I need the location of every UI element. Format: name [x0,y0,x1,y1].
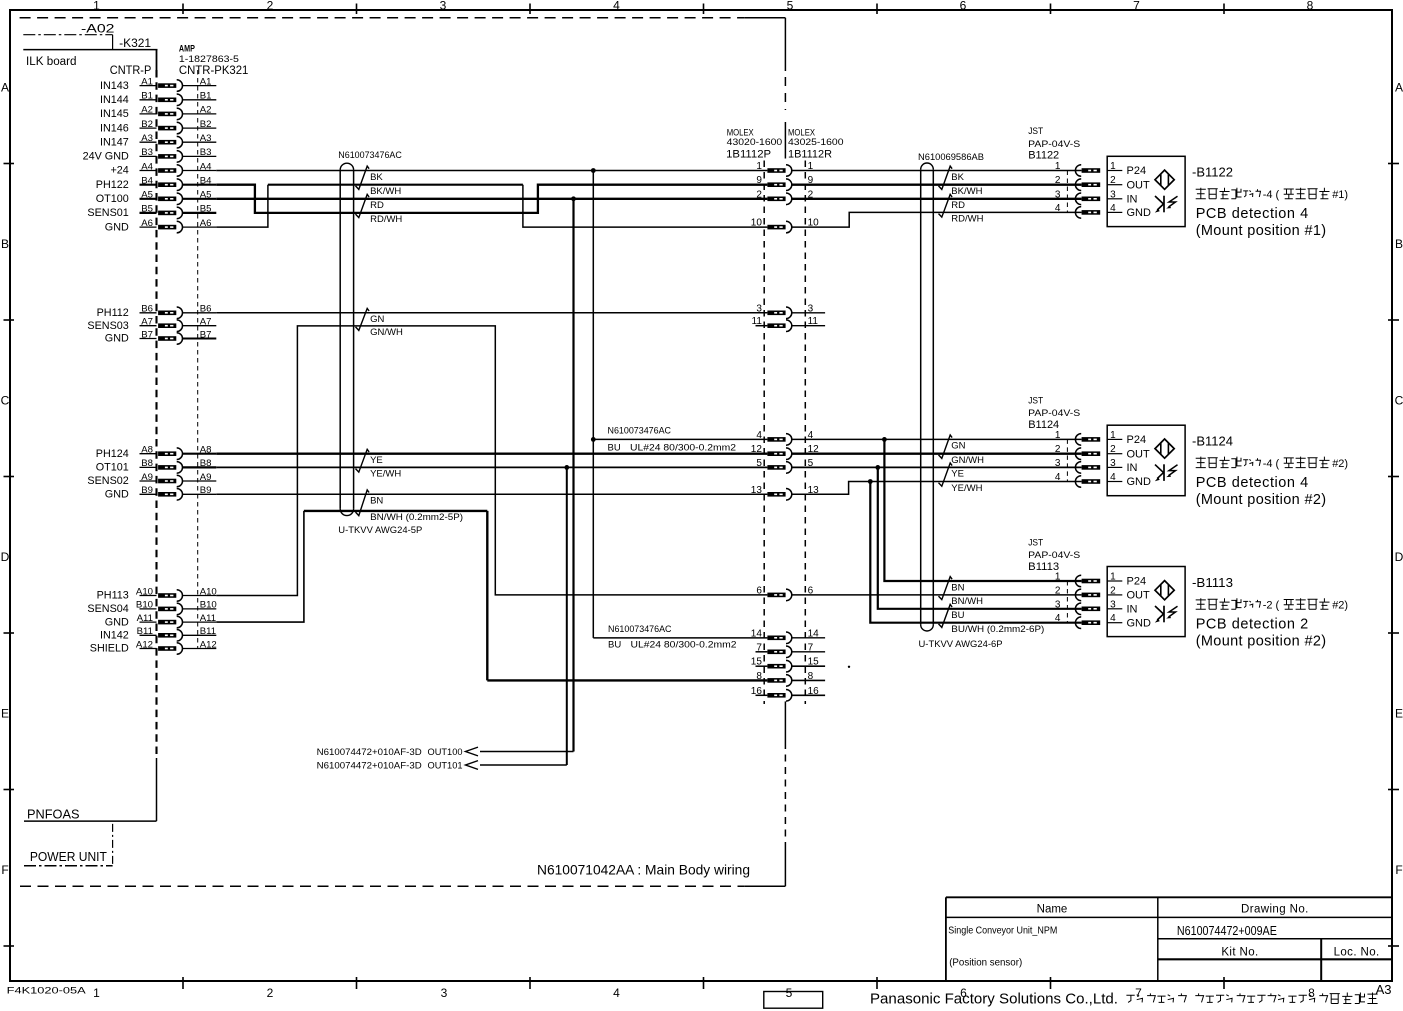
svg-text:2: 2 [1055,585,1061,596]
stray dot [848,666,850,668]
svg-text:1B1112R: 1B1112R [788,149,832,161]
junction dot GN branch to B1113 [882,437,887,442]
label N610073476AC at pin 14 wire [608,624,737,651]
pin label A1 right [183,76,217,87]
connector JST PAP-04V-S B1122 label [1028,126,1080,161]
connector CNTR-P/PK321 contact A10 [158,590,182,602]
sensor B1124 emitter diamond icon [1155,439,1174,458]
wire OT101 vertical branch to OUT101 arrow [480,467,567,765]
pin number 11 left [752,316,768,327]
svg-text:2: 2 [267,0,274,13]
wire BK to sensor B1122 P24 [791,170,1081,172]
board -A02 boundary dash-dot line [23,35,112,50]
connector CNTR-P/PK321 contact A1 [158,80,182,92]
svg-text:OUT101: OUT101 [428,760,463,770]
wire PH112 net B6 to MOLEX pin 3 [216,312,767,314]
connector CNTR-P/PK321 contact B2 [158,122,182,134]
svg-text:Loc. No.: Loc. No. [1334,947,1380,959]
svg-text:U-TKVV AWG24-5P: U-TKVV AWG24-5P [338,525,422,536]
pin number 5 right [808,458,814,469]
pin number 10 left [751,218,763,229]
pin number 1 inside B1124 and wire [1107,430,1122,441]
svg-text:U-TKVV AWG24-6P: U-TKVV AWG24-6P [919,639,1003,650]
pin label B10 right [183,600,217,611]
pin label A4 left [140,161,157,172]
svg-text:JST: JST [1028,538,1043,548]
cable 2 pair marker RD/RD/WH [939,194,953,217]
cable 2 pair marker BK/BK/WH [939,166,953,189]
svg-text:E: E [1,707,9,721]
machine boundary dashed line bottom [20,885,785,887]
connector B1122 socket contact pin 1 [1075,165,1100,177]
pin label A11 right [183,613,217,624]
connector CNTR-P/PK321 contact B3 [158,151,182,163]
svg-text:1: 1 [756,161,762,172]
pin number 6 left [756,585,762,596]
pin label A6 left [140,218,157,229]
junction dot +24 branch at pin 4 row [591,437,596,442]
pin label A1 left [140,76,157,87]
pin number 2 right [808,189,814,200]
svg-text:Panasonic Factory Solutions Co: Panasonic Factory Solutions Co.,Ltd. [870,992,1118,1008]
svg-text:PH124: PH124 [96,448,129,460]
svg-text:(Mount position #2): (Mount position #2) [1196,492,1327,508]
pin label A2 right [183,105,217,116]
connector B1124 socket contact pin 4 [1075,476,1100,488]
connector B1124 boundary dashed line [1066,439,1068,481]
svg-text:IN: IN [1127,462,1138,474]
svg-text:POWER UNIT: POWER UNIT [30,850,107,864]
connector B1122 boundary dashed line [1066,171,1068,213]
svg-text:RD: RD [370,200,384,211]
connector CNTR-P/PK321 contact A7 [158,320,182,332]
pin number 7 right [791,642,825,653]
connector 1B1112 contact pin 15 [767,660,791,672]
svg-text:1: 1 [93,986,100,1000]
label sensor B1124 japanese description [1196,457,1348,470]
svg-text:Name: Name [1037,904,1068,916]
pin number 12 right [808,444,820,455]
sensor B1113 emitter diamond icon [1155,581,1174,600]
sensor B1113 box [1107,567,1185,637]
svg-text:OUT: OUT [1127,448,1151,460]
svg-text:5: 5 [786,986,793,1000]
connector CNTR-P/PK321 contact A2 [158,108,182,120]
pin label A9 right [183,472,217,483]
pin label B9 right [183,485,217,496]
svg-text:BK/WH: BK/WH [951,186,982,197]
svg-text:C: C [1395,394,1403,408]
svg-text:14: 14 [751,628,763,639]
svg-text:5: 5 [787,0,794,13]
svg-text:24V GND: 24V GND [83,151,129,163]
pin number 5 left [756,458,762,469]
connector 1B1112 contact pin 6 [767,589,791,601]
svg-text:IN142: IN142 [100,630,129,642]
svg-text:SENS03: SENS03 [87,320,128,332]
connector B1122 socket contact pin 3 [1075,193,1100,205]
svg-text:+24: +24 [110,165,128,177]
svg-text:-2 (: -2 ( [1263,599,1280,611]
svg-text:#1): #1) [1332,189,1348,201]
svg-text:IN143: IN143 [100,80,129,92]
svg-text:BN: BN [370,496,383,507]
svg-text:PH122: PH122 [96,179,129,191]
pin label A5 left [140,190,157,201]
connector 1B1112 contact pin 9 [767,179,791,191]
svg-text:1: 1 [1055,161,1061,172]
pin number 16 right [791,686,825,697]
pin label B10 left [136,600,157,611]
sensor B1122 emitter diamond icon [1155,170,1174,189]
svg-text:1B1112P: 1B1112P [726,149,771,161]
label N610074472+010AF-3D OUT101 [317,760,463,770]
svg-text:IN147: IN147 [100,136,129,148]
arrow OUT100 [466,747,479,756]
svg-text:7: 7 [1135,986,1142,1000]
pin number 1 inside B1122 and wire [1107,161,1122,172]
svg-text:BU: BU [608,443,621,454]
company name japanese [1126,993,1377,1004]
svg-text:P24: P24 [1127,165,1147,177]
svg-text:2: 2 [267,986,274,1000]
pin label B7 right [183,329,217,340]
svg-text:BK: BK [370,172,383,183]
svg-text:D: D [1,550,10,564]
svg-text:-A02: -A02 [81,24,115,36]
svg-text:43025-1600: 43025-1600 [788,137,844,147]
svg-text:N610074472+009AE: N610074472+009AE [1177,924,1277,938]
pin number 3 inside B1124 and wire [1107,458,1122,469]
pin number 2 inside B1124 and wire [1107,444,1122,455]
svg-text:GND: GND [1127,617,1152,629]
pin label A5 right [183,190,217,201]
sensor B1124 box [1107,425,1185,496]
svg-text:N610071042AA : Main Body wirin: N610071042AA : Main Body wiring [537,862,750,878]
svg-text:#2): #2) [1332,599,1348,611]
pin label A8 right [183,445,217,456]
pin label A3 left [140,133,157,144]
svg-text:8: 8 [1308,986,1315,1000]
pin label B5 right [183,204,217,215]
connector CNTR-P/PK321 contact B7 [158,333,182,345]
connector B1122 socket contact pin 2 [1075,179,1100,191]
pin number 1 right [808,161,814,172]
connector MOLEX 1B1112P label [726,128,782,161]
svg-text:B1122: B1122 [1028,150,1059,162]
connector B1113 socket contact pin 4 [1075,617,1100,629]
arrow OUT101 [466,761,479,770]
connector 1B1112 contact pin 5 [767,462,791,474]
revision box [764,992,823,1009]
pin label B6 left [140,304,157,315]
svg-text:CNTR-PK321: CNTR-PK321 [179,65,249,77]
svg-text:D: D [1395,550,1403,564]
pin number 3 inside B1113 and wire [1107,599,1122,610]
pin label A7 left [140,317,157,328]
svg-text:3: 3 [441,986,448,1000]
svg-text:F: F [1395,863,1402,877]
wire PH113 bridge net A10 over to MOLEX pin 6 [216,326,767,596]
pin label A10 right [183,586,217,597]
svg-text:OT101: OT101 [96,462,129,474]
svg-text:6: 6 [960,0,967,13]
connector 1B1112 contact pin 1 [767,165,791,177]
svg-text:N610074472+010AF-3D: N610074472+010AF-3D [317,760,422,770]
pin number 14 left [751,628,763,639]
pin label B6 right [183,304,217,315]
svg-text:B: B [1,237,9,251]
pin number 4 right [808,430,814,441]
svg-text:IN144: IN144 [100,94,129,106]
connector 1B1112 contact pin 13 [767,489,791,501]
connector CNTR-P/PK321 contact B5 [158,207,182,219]
svg-text:4: 4 [1055,472,1061,483]
svg-text:CNTR-P: CNTR-P [110,65,152,77]
svg-text:1: 1 [1055,430,1061,441]
pin label A12 left [136,639,157,650]
svg-text:B: B [1395,237,1403,251]
svg-text:SENS02: SENS02 [87,475,128,487]
machine boundary vertical x=785 lower [784,701,786,886]
connector 1B1112R boundary dashed line [804,161,806,705]
connector B1113 socket contact pin 3 [1075,603,1100,615]
svg-text:IN: IN [1127,603,1138,615]
junction dot OT101 branch [564,465,569,470]
connector 1B1112 contact pin 4 [767,434,791,446]
cable 2 pair marker BU/BU/WH [939,604,953,627]
svg-text:GND: GND [105,333,129,345]
cable 1 pair marker GN/GN/WH [356,308,370,330]
svg-text:F4K1020-05A: F4K1020-05A [7,986,87,997]
wire +24 net A4 to MOLEX pin 1 [216,170,767,172]
junction dot YE branch to B1113 [875,465,880,470]
pin label A2 left [140,105,157,116]
connector 1B1112 contact pin 2 [767,193,791,205]
connector B1113 socket contact pin 1 [1075,575,1100,587]
pin label B4 right [183,176,217,187]
label sensor B1122 japanese description [1196,188,1348,201]
connector CNTR-P/PK321 contact B4 [158,179,182,191]
svg-text:PCB detection 4: PCB detection 4 [1196,475,1309,491]
svg-text:GND: GND [105,221,129,233]
ILK board right edge / connector CNTR-P boundary line [156,50,158,822]
svg-text:OUT: OUT [1127,179,1151,191]
svg-text:P24: P24 [1127,434,1147,446]
wire PH124 net A8 to MOLEX pin 12 [216,453,767,455]
svg-text:E: E [1395,707,1403,721]
svg-text:BU: BU [951,610,964,621]
svg-text:BK/WH: BK/WH [370,186,401,197]
pin number 15 right [791,657,825,668]
svg-text:A: A [1395,81,1403,95]
connector 1B1112 contact pin 14 [767,632,791,644]
label sensor B1113 japanese description [1196,598,1348,611]
pin label A7 right [183,317,217,328]
svg-text:4: 4 [613,0,620,13]
svg-text:N610073476AC: N610073476AC [608,624,672,635]
svg-text:UL#24 80/300-0.2mm2: UL#24 80/300-0.2mm2 [631,640,737,651]
svg-text:OUT100: OUT100 [428,747,463,757]
pin label B5 left [140,204,157,215]
pin label A9 left [140,472,157,483]
svg-text:RD: RD [951,200,965,211]
svg-text:YE: YE [370,455,383,466]
pin label A11 left [137,613,157,624]
connector B1124 socket contact pin 2 [1075,448,1100,460]
connector 1B1112 contact pin 10 [767,221,791,233]
svg-text:PCB detection 4: PCB detection 4 [1196,206,1309,222]
svg-text:GND: GND [105,616,129,628]
svg-text:N610073476AC: N610073476AC [338,150,402,161]
pin label B9 left [140,485,157,496]
svg-text:Single Conveyor Unit_NPM: Single Conveyor Unit_NPM [948,926,1057,937]
svg-text:(Mount position #1): (Mount position #1) [1196,223,1327,239]
svg-text:GND: GND [105,489,129,501]
svg-text:6: 6 [756,585,762,596]
junction dot OT100 branch [571,196,576,201]
svg-text:4: 4 [756,430,762,441]
svg-text:1: 1 [93,0,100,13]
connector CNTR-P/PK321 contact B9 [158,489,182,501]
pin label A4 right [183,161,217,172]
sensor B1124 receiver beam icon [1155,464,1178,481]
pin number 16 left [751,686,768,697]
svg-text:3: 3 [1055,458,1061,469]
svg-text:N610074472+010AF-3D: N610074472+010AF-3D [317,747,422,757]
wire OT101 net B8 to MOLEX pin 5 [216,466,767,468]
POWER UNIT boundary dash-dot line [24,824,113,866]
cable 2 pair marker YE/YE/WH [939,463,953,486]
pin number 8 right [791,671,825,682]
wire YE/WH to sensor B1124 GND [791,482,1081,495]
pin label B1 right [183,91,217,102]
svg-text:IN146: IN146 [100,122,129,134]
pin number 13 left [751,485,763,496]
svg-text:JST: JST [1028,126,1043,136]
svg-text:IN: IN [1127,193,1138,205]
svg-text:N610069586AB: N610069586AB [918,152,984,163]
svg-text:PH112: PH112 [97,307,129,319]
svg-text:BK: BK [951,172,964,183]
cable 1 pair marker BK/BK/WH [356,166,370,189]
pin number 8 left [756,671,762,682]
pin label B1 left [140,91,157,102]
svg-text:YE: YE [951,469,964,480]
connector B1124 socket contact pin 1 [1075,434,1100,446]
svg-text:5: 5 [756,458,762,469]
svg-text:A: A [1,81,9,95]
svg-text:2: 2 [756,189,762,200]
connector 1B1112 contact pin 12 [767,448,791,460]
svg-text:12: 12 [751,444,763,455]
svg-text:-4 (: -4 ( [1263,458,1280,470]
svg-text:PNFOAS: PNFOAS [27,808,80,822]
svg-text:7: 7 [1133,0,1140,13]
label N610073476AC at pin 4 wire [608,426,737,454]
cable N610069586AB capsule symbol [921,163,934,631]
wire GND net A6 dodge via B4 lane to MOLEX pin 10 [216,185,767,227]
svg-text:GN/WH: GN/WH [951,455,984,466]
svg-text:(Position sensor): (Position sensor) [949,958,1022,969]
svg-text:BN/WH: BN/WH [951,596,983,607]
pin label A8 left [140,445,157,456]
pin label A10 left [136,586,157,597]
connector B1124 socket contact pin 3 [1075,462,1100,474]
connector CNTR-P/PK321 contact B6 [158,307,182,319]
svg-text:IN145: IN145 [100,108,129,120]
svg-text:PAP-04V-S: PAP-04V-S [1028,408,1080,418]
svg-text:SENS04: SENS04 [87,603,128,615]
connector CNTR-P/PK321 contact B10 [158,603,182,615]
connector 1B1112P boundary dashed line [763,161,765,705]
wire GN to sensor B1124 P24 [791,438,1081,440]
connector B1113 boundary dashed line [1066,581,1068,623]
wire OT100 vertical branch to OUT100 arrow [480,199,574,752]
svg-text:GN: GN [370,314,384,325]
pin number 2 left [756,189,762,200]
svg-text:PAP-04V-S: PAP-04V-S [1028,550,1080,560]
svg-text:8: 8 [1307,0,1314,13]
pin number 4 inside B1122 and wire [1107,203,1122,214]
svg-text:1: 1 [1055,572,1061,583]
pin number 3 left [756,303,762,314]
svg-text:10: 10 [751,218,763,229]
pin label A12 right [183,639,217,650]
wire OT100 net A5 to MOLEX pin 2 [216,198,767,200]
cable N610073476AC capsule symbol [340,163,353,515]
svg-text:3: 3 [440,0,447,13]
connector B1113 socket contact pin 2 [1075,589,1100,601]
svg-text:8: 8 [756,671,762,682]
pin label B7 left [140,329,157,340]
wire RD to sensor B1122 IN [791,198,1081,200]
svg-text:N610073476AC: N610073476AC [608,426,672,437]
pin number 14 right [791,628,825,639]
sensor B1113 receiver beam icon [1155,606,1178,623]
pin label B2 right [183,119,217,130]
svg-text:3: 3 [1055,189,1061,200]
svg-text:9: 9 [756,175,762,186]
svg-text:4: 4 [1055,203,1061,214]
svg-text:BN/WH (0.2mm2-5P): BN/WH (0.2mm2-5P) [370,512,463,523]
svg-text:PCB detection 2: PCB detection 2 [1196,617,1309,633]
connector CNTR-P/PK321 contact A6 [158,221,182,233]
svg-text:OT100: OT100 [96,193,129,205]
wire BN/WH pin 6 to sensor B1113 OUT [791,594,1081,596]
svg-text:AMP: AMP [179,44,195,55]
machine boundary vertical x=785 upper [784,18,786,159]
connector CNTR-P/PK321 contact A8 [158,448,182,460]
svg-text:RD/WH: RD/WH [370,214,402,225]
pin label A3 right [183,133,217,144]
svg-text:-4 (: -4 ( [1263,189,1280,201]
svg-text:UL#24 80/300-0.2mm2: UL#24 80/300-0.2mm2 [630,443,736,454]
connector 1B1112 contact pin 8 [767,675,791,687]
svg-text:43020-1600: 43020-1600 [727,137,783,147]
svg-text:JST: JST [1028,396,1043,406]
pin number 12 left [751,444,763,455]
connector 1B1112 contact pin 7 [767,646,791,658]
svg-text:PH113: PH113 [97,590,129,602]
pin label B3 left [140,147,157,158]
pin label B11 right [183,626,217,637]
machine boundary dashed line top [20,17,786,19]
pin number 6 right [808,585,814,596]
wire PH122 net B4 jog down [216,185,767,213]
label N610074472+010AF-3D OUT100 [317,747,463,757]
pin number 1 left [756,161,762,172]
